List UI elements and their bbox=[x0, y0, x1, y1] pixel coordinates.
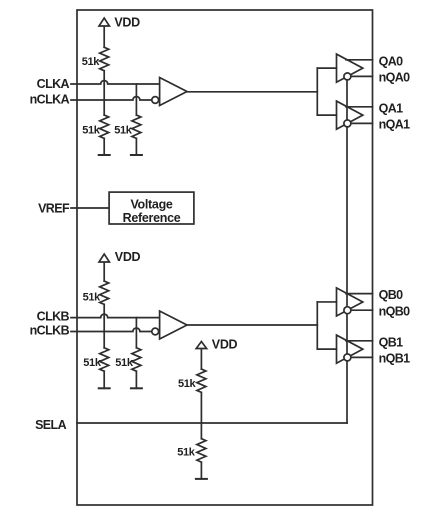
svg-text:Voltage: Voltage bbox=[130, 197, 172, 211]
select line vertical (to output buffers) bbox=[346, 79, 348, 423]
wire bus to QB0 buffer input bbox=[317, 301, 336, 303]
svg-text:nQB1: nQB1 bbox=[379, 351, 411, 365]
ground SELA bbox=[196, 478, 207, 480]
wire SELA divider lower bbox=[200, 423, 202, 439]
svg-text:CLKB: CLKB bbox=[37, 309, 70, 323]
svg-text:nCLKA: nCLKA bbox=[30, 92, 70, 106]
svg-text:VDD: VDD bbox=[115, 250, 141, 264]
svg-text:nQA1: nQA1 bbox=[379, 117, 411, 131]
output buffer U QB0 bbox=[346, 294, 373, 311]
ground B2 bbox=[131, 387, 142, 389]
inverting bubble nCLKB bbox=[152, 328, 159, 335]
ground A1 bbox=[99, 154, 110, 156]
wire nCLKA with hop over vertical 2 bbox=[71, 97, 152, 100]
bus A vertical bbox=[316, 68, 318, 115]
svg-text:nCLKB: nCLKB bbox=[30, 324, 70, 338]
ground A2 bbox=[131, 154, 142, 156]
svg-text:51k: 51k bbox=[83, 292, 102, 304]
resistor R pull-down A2 51k bbox=[132, 115, 141, 155]
bus B vertical bbox=[316, 302, 318, 349]
wire vertical 2 A (CLKA pull-down) bbox=[135, 84, 137, 115]
wire bus to QB1 buffer input bbox=[317, 348, 336, 350]
svg-text:51k: 51k bbox=[82, 125, 101, 137]
svg-text:51k: 51k bbox=[115, 357, 134, 369]
wire bus to QA1 buffer input bbox=[317, 114, 336, 116]
svg-text:VDD: VDD bbox=[212, 338, 238, 352]
svg-text:QA1: QA1 bbox=[379, 101, 404, 115]
op-amp input buffer B bbox=[160, 311, 187, 339]
resistor R pull-up B 51k bbox=[100, 281, 109, 318]
wire amp A output to bus bbox=[187, 91, 317, 93]
wire bus to QA0 buffer input bbox=[317, 67, 336, 69]
svg-text:QB1: QB1 bbox=[379, 335, 404, 349]
resistor R SELA upper 51k bbox=[197, 369, 206, 423]
svg-text:QA0: QA0 bbox=[379, 54, 404, 68]
output buffer U QB1 bbox=[346, 341, 373, 358]
wire vertical 1 B bbox=[103, 318, 105, 348]
svg-text:51k: 51k bbox=[178, 378, 197, 390]
chip boundary box bbox=[77, 10, 373, 505]
op-amp input buffer A bbox=[160, 78, 187, 106]
svg-text:51k: 51k bbox=[82, 56, 101, 68]
output buffer U QA1 bbox=[346, 107, 373, 124]
VDD symbol A (arrow) bbox=[99, 18, 109, 47]
svg-text:SELA: SELA bbox=[35, 418, 67, 432]
svg-text:51k: 51k bbox=[83, 357, 102, 369]
output buffer U QA0 bbox=[346, 60, 373, 77]
wire nCLKB with hop over vertical 2 bbox=[71, 328, 152, 332]
wire CLKB with hop over vertical 1 bbox=[71, 314, 160, 317]
resistor R pull-down B2 51k bbox=[132, 348, 141, 389]
wire CLKA with hop over vertical 1 bbox=[71, 81, 160, 84]
svg-text:51k: 51k bbox=[114, 125, 133, 137]
svg-text:CLKA: CLKA bbox=[37, 77, 70, 91]
svg-text:Reference: Reference bbox=[123, 211, 181, 225]
resistor R pull-up A 51k bbox=[100, 47, 109, 84]
wire vertical 2 B bbox=[135, 318, 137, 348]
resistor R SELA lower 51k bbox=[197, 439, 206, 479]
svg-text:QB0: QB0 bbox=[379, 288, 404, 302]
wire SELA horizontal bbox=[77, 422, 347, 424]
resistor R pull-down A1 51k bbox=[100, 115, 109, 155]
VREF wire bbox=[71, 207, 109, 209]
Voltage Reference box bbox=[109, 192, 194, 224]
svg-text:VDD: VDD bbox=[114, 16, 140, 30]
wire vertical 1 A (nCLKA bias) bbox=[103, 84, 105, 115]
VDD symbol C (SELA divider arrow) bbox=[196, 342, 206, 370]
wire amp B output to bus bbox=[187, 324, 317, 326]
svg-text:VREF: VREF bbox=[38, 202, 70, 216]
resistor R pull-down B1 51k bbox=[100, 348, 109, 389]
svg-text:nQB0: nQB0 bbox=[379, 304, 411, 318]
svg-text:nQA0: nQA0 bbox=[379, 70, 411, 84]
svg-text:51k: 51k bbox=[177, 447, 196, 459]
VDD symbol B (arrow) bbox=[99, 254, 109, 281]
ground B1 bbox=[99, 387, 110, 389]
inverting bubble nCLKA bbox=[152, 97, 159, 104]
